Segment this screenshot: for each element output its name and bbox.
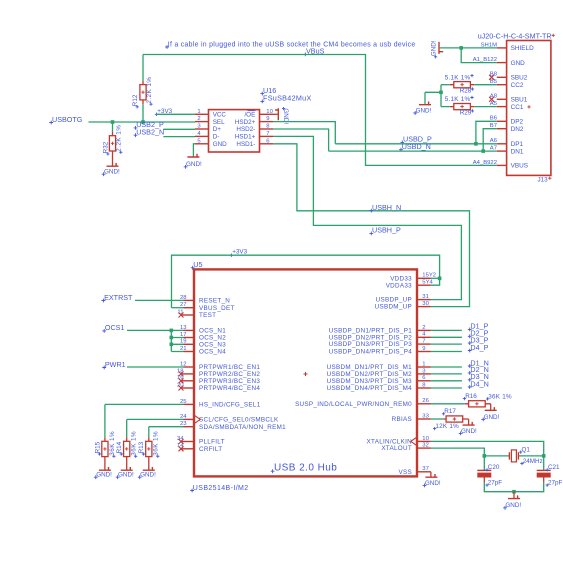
svg-text:R15: R15 [94, 441, 101, 453]
net USBOTG label [49, 115, 82, 125]
wire mux HSD2+ to USBD_P [273, 122, 335, 144]
connector J13 pin A4_B922 VBUS [473, 160, 528, 170]
ground below R32 [107, 163, 119, 166]
wire hub to R13 [149, 427, 184, 438]
wire hub to net D4_P [431, 351, 462, 353]
svg-text:SEL: SEL [213, 119, 225, 126]
wire SHIELD to ground [439, 47, 497, 49]
hub U5 pin 8 USBDM_DN4/PRT_DIS_M4 [327, 382, 431, 392]
svg-text:RESET_N: RESET_N [199, 298, 230, 305]
net D2_P label [468, 329, 489, 339]
wire crystal row right [518, 455, 543, 457]
ground at mux pin 10 (rotated) [273, 107, 289, 124]
net D4_P label [468, 343, 489, 353]
net USBH_P label [369, 226, 401, 236]
connector J13 pin B7 DN2 [490, 123, 524, 133]
svg-text:FSuSB42MuX: FSuSB42MuX [263, 94, 312, 103]
hub U5 pin 13 OCS_N1 [180, 325, 226, 335]
mux U16 pin 1 VCC [195, 109, 226, 119]
net VBuS label [303, 47, 324, 57]
svg-text:GND!: GND! [186, 161, 202, 168]
svg-text:VDDA33: VDDA33 [386, 282, 412, 289]
resistor R15 36K [94, 431, 116, 470]
wire USB2_N to mux D- [163, 136, 195, 138]
svg-text:HSD2+: HSD2+ [235, 119, 256, 126]
svg-text:R14: R14 [116, 441, 123, 453]
wire +3V3 rail to VDD33 and VBUS_DET [172, 255, 440, 308]
svg-text:SBU1: SBU1 [511, 97, 528, 104]
mux U16 pin 5 GND [195, 138, 227, 148]
svg-text:DN1: DN1 [511, 148, 524, 155]
wire hub to net D2_N [431, 373, 462, 375]
connector J13 pin A7 DN1 [490, 146, 524, 156]
svg-text:A7: A7 [490, 146, 497, 152]
svg-text:1: 1 [197, 109, 200, 115]
svg-text:GND!: GND! [118, 472, 134, 479]
ground at hub VSS [423, 472, 441, 488]
net EXTRST label [102, 293, 134, 303]
hub U5 part number label [190, 485, 248, 493]
hub U5 pin 21 OCS_N4 [180, 346, 226, 356]
hub U5 pin 10 XTALIN/CLKIN [367, 436, 431, 446]
svg-text:Q1: Q1 [522, 447, 531, 454]
svg-text:DN2: DN2 [511, 126, 524, 133]
svg-text:USBD_N: USBD_N [402, 142, 431, 151]
hub U5 pin 28 RESET_N [180, 295, 230, 305]
hub U5 pin 31 USBDP_UP [376, 294, 431, 304]
mux U16 pin 9 HSD2+ [235, 116, 273, 126]
wire CC pulldown bus [425, 85, 441, 107]
connector J13 pin SH1M SHIELD [481, 42, 534, 52]
hub U5 pin 1 USBDM_DN1/PRT_DIS_M1 [327, 361, 431, 371]
hub U5 pin 16 PRTPWR3/BC_EN3 [177, 375, 260, 385]
wire VBUS_DET branch [172, 307, 184, 309]
resistor R12 2.2K [132, 55, 153, 109]
connector J13 pin B5 CC2 [490, 79, 524, 89]
resistor R32 2.2K [103, 122, 123, 166]
wire mux HSD2- to USBD_N [273, 129, 329, 151]
no-connect X at hub pin 16 [179, 378, 184, 383]
svg-text:D4_P: D4_P [470, 343, 488, 352]
svg-text:37: 37 [422, 466, 429, 472]
svg-text:7: 7 [422, 339, 425, 345]
svg-text:USBOTG: USBOTG [52, 115, 83, 124]
mux U16 pin 7 HSD1+ [235, 131, 273, 141]
junction VDD33 [438, 277, 442, 281]
svg-text:PWR1: PWR1 [105, 360, 126, 369]
hub U5 pin 15Y2 VDD33 [390, 273, 436, 283]
svg-text:VSS: VSS [399, 469, 413, 476]
hub U5 pin 27 VBUS_DET [180, 302, 235, 312]
svg-text:B6: B6 [490, 116, 498, 122]
mux U16 pin 6 HSD1- [236, 138, 273, 148]
svg-text:DP1: DP1 [511, 141, 524, 148]
svg-text:RBIAS: RBIAS [392, 416, 412, 423]
resistor R28 5.1K on CC2 [445, 74, 475, 95]
wire mux HSD1- to hub USBDM_UP (USBH_N) [273, 144, 470, 307]
svg-text:36K 1%: 36K 1% [153, 431, 160, 456]
junction OCS bus 2 [170, 336, 174, 340]
connector J13 pin A8 SBU1 [490, 94, 528, 104]
svg-text:CC2: CC2 [511, 82, 524, 89]
mux U16 refdes label [260, 86, 276, 96]
svg-text:HSD1+: HSD1+ [235, 134, 256, 141]
svg-text:USBH_N: USBH_N [372, 203, 401, 212]
hub U5 pin 4 USBDP_DN2/PRT_DIS_P2 [329, 332, 431, 342]
no-connect X at hub pin 18 [179, 371, 184, 376]
svg-text:CC1: CC1 [511, 104, 524, 111]
wire hub to net D1_P [431, 329, 462, 331]
wire hub to R14 [127, 419, 184, 437]
svg-text:If a cable in plugged into the: If a cable in plugged into the uUSB sock… [168, 41, 416, 48]
resistor R29 5.1K on CC1 [445, 96, 475, 117]
svg-text:B7: B7 [490, 123, 497, 129]
wire R28 left to ground bus [441, 84, 450, 86]
ground below R15 [99, 467, 111, 470]
wire R12 bottom to USBOTG net [142, 104, 144, 122]
svg-text:USBDM_DN3/PRT_DIS_M3: USBDM_DN3/PRT_DIS_M3 [327, 378, 413, 385]
svg-text:DP2: DP2 [511, 119, 524, 126]
note comment text [165, 41, 415, 49]
net PWR1 label [102, 360, 125, 370]
svg-text:2.2K 1%: 2.2K 1% [146, 77, 153, 104]
svg-text:GND!: GND! [140, 472, 156, 479]
svg-text:31: 31 [422, 294, 429, 300]
resistor R17 12K [433, 408, 469, 430]
junction SHIELD/GND pins [459, 46, 463, 50]
svg-text:/OE: /OE [244, 112, 255, 119]
hub U5 pin 7 USBDP_DN3/PRT_DIS_P3 [329, 339, 431, 349]
wire VDD33 branch [431, 277, 440, 279]
no-connect X at hub pin 34 [179, 439, 184, 444]
junction OCS bus 1 [170, 329, 174, 333]
net USBD_P label [400, 135, 432, 145]
svg-text:SBU2: SBU2 [511, 75, 528, 82]
svg-text:9: 9 [266, 116, 269, 122]
svg-text:SCL/CFG_SEL0/SMBCLK: SCL/CFG_SEL0/SMBCLK [199, 417, 279, 424]
hub U5 pin 17 OCS_N2 [180, 332, 226, 342]
svg-text:PRTPWR4/BC_EN4: PRTPWR4/BC_EN4 [199, 385, 260, 392]
mux U16 value label [260, 94, 311, 104]
svg-text:HS_IND/CFG_SEL1: HS_IND/CFG_SEL1 [199, 402, 261, 409]
svg-text:XTALOUT: XTALOUT [381, 445, 412, 452]
svg-text:10: 10 [422, 436, 429, 442]
wire USBD_P to USB-C DP1 [335, 143, 497, 145]
svg-text:10: 10 [266, 109, 273, 115]
hub U5 pin 3 USBDM_DN2/PRT_DIS_M2 [327, 368, 431, 378]
wire hub to net D3_N [431, 380, 462, 382]
junction R12/USBOTG [141, 120, 145, 124]
resistor R13 36K [138, 431, 160, 470]
svg-text:A4_B922: A4_B922 [473, 160, 497, 166]
resistor R16 36K [463, 393, 512, 410]
wire USBOTG to mux SEL [89, 121, 196, 123]
wire crystal caps ground rail [484, 482, 543, 492]
svg-text:32: 32 [422, 443, 429, 449]
svg-text:27pF: 27pF [488, 479, 503, 486]
svg-text:7: 7 [266, 131, 269, 137]
ground for crystal caps [503, 492, 521, 510]
wire CC2 to R28 [474, 84, 497, 86]
svg-text:VBUS_DET: VBUS_DET [199, 305, 235, 312]
ground for CC resistors [419, 102, 431, 105]
svg-text:9: 9 [422, 346, 425, 352]
ground below R14 [121, 467, 133, 470]
svg-text:GND: GND [511, 60, 526, 67]
svg-text:R16: R16 [465, 393, 477, 400]
svg-text:J13: J13 [538, 176, 549, 183]
svg-text:12K 1%: 12K 1% [435, 423, 459, 430]
hub U5 pin 6 USBDM_DN3/PRT_DIS_M3 [327, 375, 431, 385]
wire PWR1 to hub PRTPWR1 [127, 366, 184, 368]
net D3_P label [468, 335, 489, 345]
no-connect X at hub pin 11 [179, 313, 184, 318]
wire +3V3 to mux VCC [156, 113, 195, 115]
net D4_N label [468, 379, 489, 389]
wire OCS1 to hub OCS_N pins [127, 330, 184, 351]
net D1_N label [468, 358, 489, 368]
hub U5 pin 19 OCS_N3 [180, 339, 226, 349]
connector J13 pin B8 SBU2 [490, 72, 528, 82]
svg-text:PLLFILT: PLLFILT [199, 439, 225, 446]
hub U5 pin 2 USBDP_DN1/PRT_DIS_P1 [329, 325, 431, 335]
connector J13 pin B6 DP2 [490, 116, 524, 126]
junction USBD_P branch DP2 [474, 142, 478, 146]
svg-text:OCS_N1: OCS_N1 [199, 328, 226, 335]
hub U5 pin 33 RBIAS [392, 413, 431, 423]
no-connect X at SBU1 [489, 97, 494, 102]
connector J13 pin A1_B122 GND [473, 57, 525, 67]
connector J13 value label [478, 32, 555, 41]
no-connect X at SBU2 [489, 75, 494, 80]
hub U5 name label USB 2.0 Hub [271, 462, 338, 473]
hub U5 pin 5Y4 VDDA33 [386, 280, 434, 290]
svg-text:GND!: GND! [484, 414, 500, 421]
net USBH_N label [369, 203, 401, 213]
svg-text:GND!: GND! [104, 169, 120, 176]
hub U5 pin 32 XTALOUT [381, 443, 431, 453]
svg-text:OCS_N4: OCS_N4 [199, 349, 226, 356]
wire USB2_P to mux D+ [163, 128, 195, 130]
hub U5 pin 23 SDA/SMBDATA/NON_REM1 [180, 421, 286, 431]
svg-text:CRFILT: CRFILT [199, 446, 222, 453]
svg-text:USBDP_DN3/PRT_DIS_P3: USBDP_DN3/PRT_DIS_P3 [329, 341, 412, 348]
hub U5 pin 37 VSS [399, 466, 431, 476]
svg-text:1: 1 [422, 361, 425, 367]
hub U5 pin 25 HS_IND/CFG_SEL1 [180, 399, 261, 409]
mux U16 pin 4 D- [195, 131, 219, 141]
svg-text:PRTPWR3/BC_EN3: PRTPWR3/BC_EN3 [199, 378, 260, 385]
hub U5 pin 14 CRFILT [177, 443, 222, 453]
svg-text:OCS1: OCS1 [105, 323, 125, 332]
wire GND pin branch [461, 48, 497, 63]
connector J13 pin A6 DP1 [490, 138, 524, 148]
svg-text:SHIELD: SHIELD [511, 45, 534, 52]
junction USBD_N branch DN2 [481, 149, 485, 153]
svg-text:USB 2.0 Hub: USB 2.0 Hub [274, 462, 337, 473]
wire EXTRST to hub RESET_N [135, 299, 184, 301]
junction CC bus [439, 91, 443, 95]
connector J13 refdes label [538, 176, 552, 183]
svg-text:VBUS: VBUS [511, 163, 528, 170]
net D2_N label [468, 365, 489, 375]
mux U16 pin 2 SEL [195, 116, 225, 126]
svg-text:26: 26 [422, 398, 429, 404]
svg-text:USB2_N: USB2_N [136, 128, 164, 137]
svg-text:VCC: VCC [213, 112, 227, 119]
net D3_N label [468, 372, 489, 382]
wire VBuS from R12 top to USB-C VBUS pin [143, 55, 497, 166]
hub U5 pin 20 PRTPWR4/BC_EN4 [177, 382, 260, 392]
svg-text:D-: D- [213, 134, 220, 141]
resistor R14 36K [116, 431, 138, 470]
net USB2_N label [134, 128, 165, 138]
hub U5 pin 34 PLLFILT [177, 436, 225, 446]
svg-text:USB2514B-I/M2: USB2514B-I/M2 [193, 485, 249, 492]
wire USBD_N branch to DN2 [483, 129, 497, 151]
hub U5 USB2514B body [194, 269, 417, 476]
hub U5 pin 18 PRTPWR2/BC_EN2 [177, 368, 260, 378]
svg-text:TEST: TEST [199, 312, 216, 319]
svg-text:2.2K 1%: 2.2K 1% [116, 125, 123, 152]
power +3V3 hub [230, 249, 248, 257]
svg-text:GND!: GND! [416, 107, 432, 114]
svg-text:GND!: GND! [430, 40, 437, 56]
wire crystal row left [484, 455, 509, 457]
wire hub to net D3_P [431, 343, 462, 345]
svg-text:R13: R13 [138, 441, 145, 453]
svg-text:HSD1-: HSD1- [236, 141, 255, 148]
svg-text:A6: A6 [490, 138, 498, 144]
svg-text:2: 2 [197, 116, 200, 122]
svg-text:27pF: 27pF [548, 479, 563, 486]
connector J13 uJ20-C-H-C-4-SMT-TR body [507, 41, 551, 176]
hub U5 pin 30 USBDM_UP [375, 301, 431, 311]
hub U5 pin 24 SCL/CFG_SEL0/SMBCLK [180, 414, 279, 424]
junction OCS bus 3 [170, 343, 174, 347]
svg-text:36K 1%: 36K 1% [488, 393, 512, 400]
mux U16 FSuSB42MuX body [209, 110, 260, 152]
wire hub SUSP_IND to R16 [431, 403, 465, 405]
svg-text:GND!: GND! [96, 472, 112, 479]
svg-text:U5: U5 [193, 260, 202, 269]
svg-text:D4_N: D4_N [470, 379, 488, 388]
net OCS1 label [102, 323, 124, 333]
connector J13 pin A5 CC1 [490, 101, 531, 111]
no-connect X at hub pin 14 [179, 446, 184, 451]
ground below R17 [463, 422, 475, 425]
wire USBD_N to USB-C DN1 [329, 150, 497, 152]
svg-text:33: 33 [422, 413, 429, 419]
capacitor C20 27pF [477, 456, 502, 487]
svg-text:24MHz: 24MHz [523, 458, 543, 465]
svg-text:30: 30 [422, 301, 429, 307]
hub U5 pin 26 SUSP_IND/LOCAL_PWR/NON_REM0 [295, 398, 431, 408]
svg-text:GND!: GND! [505, 502, 521, 509]
hub U5 pin 9 USBDP_DN4/PRT_DIS_P4 [329, 346, 431, 356]
svg-text:C21: C21 [548, 464, 560, 471]
hub U5 pin 12 PRTPWR1/BC_EN1 [180, 361, 260, 371]
wire hub to R15 [105, 404, 184, 437]
svg-text:USBDP_UP: USBDP_UP [376, 297, 412, 304]
svg-text:USBDM_UP: USBDM_UP [375, 304, 412, 311]
hub U5 pin 11 TEST [177, 309, 216, 319]
hub U5 origin cross [304, 372, 308, 376]
junction ground rail [512, 490, 516, 494]
svg-text:SUSP_IND/LOCAL_PWR/NON_REM0: SUSP_IND/LOCAL_PWR/NON_REM0 [295, 401, 412, 408]
svg-text:C20: C20 [488, 464, 500, 471]
mux U16 pin 3 D+ [195, 124, 221, 134]
svg-text:36K 1%: 36K 1% [109, 431, 116, 456]
crystal Q1 24MHz [509, 447, 542, 466]
svg-text:R12: R12 [132, 94, 139, 106]
svg-text:SDA/SMBDATA/NON_REM1: SDA/SMBDATA/NON_REM1 [199, 424, 286, 431]
power +3V3 mux VCC [155, 108, 173, 116]
svg-text:GND!: GND! [425, 480, 441, 487]
net USB2_P label [134, 120, 164, 130]
svg-text:GND: GND [213, 141, 227, 148]
svg-text:R29: R29 [460, 109, 472, 116]
ground below R13 [143, 467, 155, 470]
svg-text:5.1K 1%: 5.1K 1% [445, 74, 471, 81]
svg-text:5.1K 1%: 5.1K 1% [445, 96, 471, 103]
svg-text:D+: D+ [213, 126, 222, 133]
wire R29 left to ground bus [441, 106, 450, 108]
wire hub RBIAS to R17 [431, 418, 443, 420]
svg-text:OCS_N3: OCS_N3 [199, 341, 226, 348]
wire XTALOUT to crystal left [431, 448, 484, 456]
net USBD_N label [399, 142, 431, 152]
junction crystal right [542, 454, 546, 458]
wire USBD_P branch to DP2 [476, 121, 497, 144]
svg-text:EXTRST: EXTRST [104, 293, 133, 302]
wire hub to net D2_P [431, 336, 462, 338]
junction USBOTG/R32 [111, 120, 115, 124]
svg-text:USBDP_DN4/PRT_DIS_P4: USBDP_DN4/PRT_DIS_P4 [329, 349, 412, 356]
mux U16 pin 10 OE [244, 109, 273, 119]
svg-text:USBH_P: USBH_P [372, 226, 401, 235]
svg-text:uJ20-C-H-C-4-SMT-TR: uJ20-C-H-C-4-SMT-TR [478, 32, 552, 41]
svg-text:R32: R32 [103, 141, 110, 153]
wire CC1 to R29 [474, 106, 497, 108]
svg-text:R17: R17 [444, 408, 456, 415]
ground at J13 SHIELD (rotated) [430, 40, 443, 58]
svg-text:2: 2 [422, 325, 425, 331]
mux U16 pin 8 HSD2- [236, 124, 273, 134]
svg-text:USBDM_DN4/PRT_DIS_M4: USBDM_DN4/PRT_DIS_M4 [327, 385, 413, 392]
svg-text:R28: R28 [460, 88, 472, 95]
wire mux HSD1+ to hub USBDP_UP (USBH_P) [273, 136, 461, 299]
ground below R16 [485, 407, 497, 410]
net D1_P label [468, 322, 489, 332]
no-connect X at hub pin 20 [179, 386, 184, 391]
wire hub to net D1_N [431, 366, 462, 368]
svg-text:HSD2-: HSD2- [236, 126, 255, 133]
junction crystal left [483, 454, 487, 458]
capacitor C21 27pF [537, 456, 563, 487]
ground at mux pin 5 [184, 144, 202, 169]
wire XTALIN to crystal right [431, 441, 544, 456]
wire hub to net D4_N [431, 387, 462, 389]
svg-text:GND!: GND! [461, 428, 477, 435]
svg-text:36K 1%: 36K 1% [131, 431, 138, 456]
hub U5 refdes label [191, 260, 203, 270]
